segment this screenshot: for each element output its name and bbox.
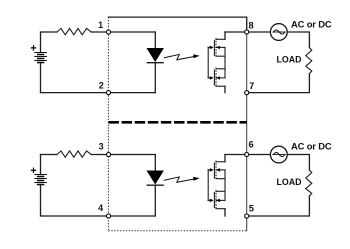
light arrow ch1 bbox=[164, 54, 195, 59]
wire: AC source to load corner bbox=[287, 32, 309, 48]
AC source G2 circle bbox=[270, 146, 287, 163]
wire: battery left vertical (ch1) bbox=[40, 32, 42, 52]
wire: LED cathode to bottom rail bbox=[154, 63, 156, 93]
wire: load to bottom rail (ch2) bbox=[247, 196, 310, 216]
svg-text:6: 6 bbox=[249, 139, 254, 149]
resistor R1 zigzag bbox=[57, 28, 91, 34]
mosfet Q1 body arrow bbox=[216, 46, 220, 50]
svg-text:1: 1 bbox=[98, 20, 103, 30]
svg-text:7: 7 bbox=[249, 81, 254, 91]
mosfet Q4 drain stub bbox=[216, 208, 225, 210]
battery B1 plus sign bbox=[31, 46, 35, 50]
gate bus ch2 bbox=[207, 170, 209, 201]
package outline left edge (dotted) bbox=[107, 17, 109, 231]
mosfet Q2 body stub bbox=[216, 77, 225, 79]
node pin7 bbox=[245, 91, 249, 95]
node pin4 bbox=[106, 214, 110, 218]
wire: ch2 top rail to LED bbox=[91, 154, 155, 156]
node pin8 bbox=[245, 30, 249, 34]
mosfet Q3 body arrow bbox=[216, 168, 220, 172]
channel separator dashed line bbox=[109, 121, 247, 124]
mosfet Q3 drain stub bbox=[216, 161, 225, 163]
mosfet Q4 body stub bbox=[216, 199, 225, 201]
gate lead arrow ch1 bottom bbox=[208, 77, 210, 79]
mosfet Q4 channel bar bbox=[215, 190, 217, 210]
wire: AC source to load corner (ch2) bbox=[287, 155, 309, 171]
LED D1 cathode bar bbox=[147, 62, 163, 64]
mosfet Q2 body arrow bbox=[216, 76, 220, 80]
LED D2 cathode bar bbox=[147, 184, 163, 186]
wire: ch2 bottom rail left segment bbox=[41, 215, 156, 217]
wire: common source tie ch2 bbox=[224, 170, 226, 201]
node pin3 bbox=[106, 152, 110, 156]
mosfet Q3 channel bar bbox=[215, 161, 217, 181]
mosfet Q3 (ch2 top) gate bar bbox=[213, 163, 215, 178]
mosfet Q3 body stub bbox=[216, 169, 225, 171]
mosfet Q4 (ch2 bottom) gate bar bbox=[213, 193, 215, 208]
wire: LED D2 cathode to bottom rail bbox=[154, 185, 156, 216]
wire: ch2 top rail left segment bbox=[41, 154, 58, 156]
package outline bottom edge (dotted) bbox=[108, 230, 246, 232]
svg-text:8: 8 bbox=[249, 20, 254, 30]
package outline top edge bbox=[109, 16, 247, 18]
mosfet Q2 source stub bbox=[216, 68, 225, 70]
wire: top rail corner down to pin 8 bbox=[246, 17, 248, 32]
LED D1 triangle bbox=[147, 48, 163, 61]
battery B1 plates bbox=[35, 53, 47, 63]
svg-text:AC or DC: AC or DC bbox=[291, 140, 332, 151]
svg-text:2: 2 bbox=[99, 80, 104, 90]
mosfet Q4 body arrow bbox=[216, 199, 220, 203]
wire: ch1 top rail left segment bbox=[41, 31, 58, 33]
mosfet Q2 drain stub bbox=[216, 85, 225, 87]
wire: Q2 drain down to rail bbox=[224, 86, 226, 92]
wire: ch1 drain rail to node 8 and AC source bbox=[225, 31, 270, 33]
svg-text:LOAD: LOAD bbox=[277, 177, 302, 187]
wire: LED anode drop bbox=[154, 32, 156, 48]
wire: Q1 drain up to rail bbox=[224, 32, 226, 39]
mosfet Q1 (ch1 top) gate bar bbox=[213, 41, 215, 56]
mosfet Q2 (ch1 bottom) gate bar bbox=[213, 70, 215, 85]
mosfet Q3 source stub bbox=[216, 178, 225, 180]
wire: ch1 top rail to LED bbox=[91, 31, 155, 33]
gate lead arrow ch2 bottom bbox=[208, 199, 210, 201]
wire: load to bottom rail bbox=[247, 74, 310, 93]
gate lead arrow ch1 top bbox=[208, 46, 210, 48]
wire: battery left vertical (ch2) bbox=[40, 155, 42, 175]
wire: common source tie ch1 bbox=[224, 47, 226, 78]
AC source G1 circle bbox=[270, 24, 287, 41]
mosfet Q1 body stub bbox=[216, 46, 225, 48]
AC source G1 sine bbox=[273, 31, 285, 33]
svg-text:4: 4 bbox=[98, 203, 103, 213]
LED D2 triangle bbox=[147, 171, 163, 184]
battery B2 plus sign bbox=[31, 168, 35, 172]
node pin1 bbox=[106, 30, 110, 34]
svg-text:3: 3 bbox=[99, 142, 104, 152]
wire: ch2 drain rail to node 6 and AC source bbox=[225, 154, 270, 156]
wire: ch1 bottom rail left segment bbox=[41, 92, 156, 94]
AC source G2 sine bbox=[273, 154, 285, 156]
wire: Q4 drain down to rail bbox=[224, 209, 226, 216]
light arrow ch2 bbox=[164, 177, 195, 182]
mosfet Q1 channel bar bbox=[215, 38, 217, 58]
package outline right edge bbox=[246, 17, 248, 231]
mosfet Q2 channel bar bbox=[215, 68, 217, 88]
resistor R2 zigzag bbox=[57, 151, 91, 157]
wire: LED D2 anode drop bbox=[154, 155, 156, 171]
gate bus ch1 bbox=[207, 47, 209, 78]
node pin6 bbox=[245, 152, 249, 156]
load resistor RL2 zigzag bbox=[306, 170, 312, 196]
wire: Q3 drain up to rail bbox=[224, 155, 226, 162]
svg-text:AC or DC: AC or DC bbox=[291, 19, 332, 30]
gate lead arrow ch2 top bbox=[208, 169, 210, 171]
node pin5 bbox=[245, 214, 249, 218]
mosfet Q1 source stub bbox=[216, 55, 225, 57]
svg-text:LOAD: LOAD bbox=[277, 55, 302, 65]
svg-text:5: 5 bbox=[249, 203, 254, 213]
node pin2 bbox=[106, 91, 110, 95]
mosfet Q1 drain stub bbox=[216, 38, 225, 40]
load resistor RL1 zigzag bbox=[306, 48, 312, 74]
battery B2 plates bbox=[35, 175, 47, 185]
mosfet Q4 source stub bbox=[216, 190, 225, 192]
